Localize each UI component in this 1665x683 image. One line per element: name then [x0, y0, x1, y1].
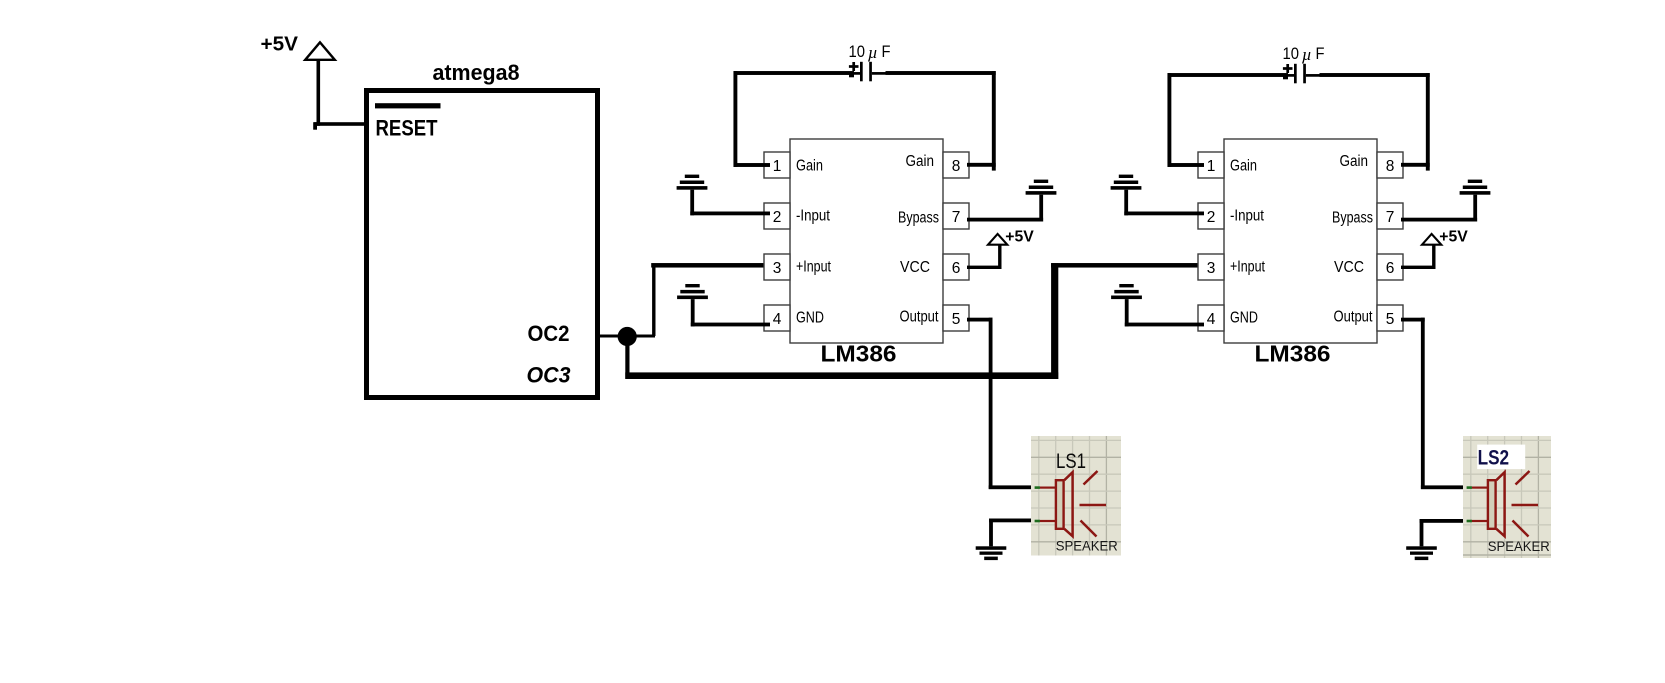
svg-text:F: F: [882, 42, 891, 61]
wire: right drop to pin8: [992, 71, 996, 171]
svg-text:RESET: RESET: [376, 116, 438, 141]
svg-text:Gain: Gain: [796, 158, 823, 175]
svg-text:7: 7: [1386, 209, 1395, 226]
U2 pin 2 box: [764, 203, 790, 229]
svg-text:3: 3: [1207, 260, 1216, 277]
svg-text:LM386: LM386: [1255, 341, 1331, 367]
svg-text:+5V: +5V: [261, 34, 299, 56]
LS2 - terminal lead (red): [1472, 520, 1489, 522]
svg-text:+Input: +Input: [796, 259, 832, 276]
wire: OC2 pin to junction: [600, 335, 624, 338]
wire: Output pin 5 stub: [1401, 318, 1425, 322]
svg-text:+5V: +5V: [1005, 229, 1034, 246]
svg-text:10: 10: [849, 42, 866, 61]
svg-text:µ: µ: [868, 43, 878, 62]
U2 pin 6 box: [943, 254, 969, 280]
wire: GND at U3 GND pin to pin: [1125, 323, 1204, 327]
C2 plus polarity mark: [1283, 64, 1293, 73]
svg-text:5: 5: [952, 311, 961, 328]
wire: GND at U3 Bypass to pin: [1401, 218, 1477, 222]
svg-text:1: 1: [773, 158, 782, 175]
wire: left drop to pin1: [1167, 73, 1171, 167]
svg-text:10: 10: [1283, 44, 1300, 63]
svg-text:2: 2: [773, 209, 782, 226]
svg-text:5: 5: [1386, 311, 1395, 328]
svg-text:OC3: OC3: [527, 363, 571, 388]
wire: C2 left lead: [1168, 73, 1295, 79]
wire: output drop: [1421, 318, 1425, 489]
op-amp U2 LM386 body: [790, 139, 943, 343]
svg-text:LS2: LS2: [1478, 447, 1510, 470]
svg-text:OC2: OC2: [528, 321, 570, 346]
svg-text:3: 3: [773, 260, 782, 277]
svg-text:F: F: [1316, 44, 1325, 63]
svg-text:µ: µ: [1302, 45, 1312, 64]
LS1 - terminal lead (red): [1040, 520, 1057, 522]
svg-text:+Input: +Input: [1230, 259, 1266, 276]
svg-text:8: 8: [1386, 158, 1395, 175]
svg-text:Bypass: Bypass: [898, 210, 939, 227]
wire: junction to U2 +Input (horizontal): [634, 335, 655, 338]
svg-text:Output: Output: [1334, 309, 1374, 326]
svg-text:7: 7: [952, 209, 961, 226]
svg-text:LM386: LM386: [821, 341, 897, 367]
LS1 + terminal stub (green): [1035, 486, 1040, 489]
ground GND at U2 Bypass: [1026, 180, 1057, 222]
C1 left plate: [860, 62, 863, 82]
wire: GND at U2 -Input to pin: [690, 212, 770, 216]
LS2 sound wave lines: [1512, 471, 1539, 537]
U3 pin 7 box: [1377, 203, 1403, 229]
svg-text:Gain: Gain: [1230, 158, 1257, 175]
wire: C1 right lead: [872, 71, 996, 75]
wire: GND at U2 Bypass to pin: [967, 218, 1043, 222]
op-amp U3 LM386 body: [1224, 139, 1377, 343]
svg-text:4: 4: [773, 311, 782, 328]
LS2 cone: [1496, 472, 1504, 536]
speaker LS1 component panel: [1031, 436, 1121, 556]
svg-text:VCC: VCC: [900, 259, 930, 276]
svg-text:6: 6: [1386, 260, 1395, 277]
wire: into pin 8: [1401, 163, 1430, 167]
LS1 + terminal lead (red): [1040, 487, 1057, 489]
svg-text:Gain: Gain: [906, 153, 935, 170]
wire: +5V stem to VCC: [1432, 245, 1435, 269]
U2 pin 4 box: [764, 305, 790, 331]
wire: left drop to pin1: [733, 71, 737, 167]
svg-text:SPEAKER: SPEAKER: [1056, 538, 1118, 553]
junction node (solder dot): [618, 327, 637, 346]
LS2 label background: [1477, 445, 1525, 470]
LS1 - terminal stub (green): [1035, 520, 1040, 523]
ground GND at U3 -Input: [1111, 175, 1142, 216]
svg-text:8: 8: [952, 158, 961, 175]
U3 pin 6 box: [1377, 254, 1403, 280]
wire: GND at U3 -Input to pin: [1124, 212, 1204, 216]
svg-text:atmega8: atmega8: [433, 60, 520, 85]
ground GND at U3 Bypass: [1460, 180, 1491, 222]
LS1 driver rectangle: [1056, 480, 1064, 529]
power symbol +5V at VCC: [1422, 229, 1468, 246]
svg-text:GND: GND: [1230, 310, 1258, 327]
svg-text:4: 4: [1207, 311, 1216, 328]
C1 right plate: [869, 62, 872, 82]
U2 pin 8 box: [943, 152, 969, 178]
svg-text:Output: Output: [900, 309, 940, 326]
svg-text:GND: GND: [796, 310, 824, 327]
wire: into pin 6 VCC: [1401, 266, 1436, 269]
svg-text:Bypass: Bypass: [1332, 210, 1373, 227]
wire: OC3 trunk down from junction: [625, 336, 629, 379]
wire: +5V stem down: [317, 60, 321, 126]
capacitor C2 10uF value label: [1283, 44, 1325, 64]
LS2 + terminal lead (red): [1472, 487, 1489, 489]
U3 pin 5 box: [1377, 305, 1403, 331]
wire: into pin 1: [1168, 163, 1205, 167]
svg-text:1: 1: [1207, 158, 1216, 175]
wire: C2 right lead: [1306, 73, 1430, 77]
power symbol +5V at VCC: [988, 229, 1034, 246]
LS2 panel grid: [1463, 436, 1551, 558]
U2 pin 3 box: [764, 254, 790, 280]
LS1 panel grid: [1031, 436, 1121, 556]
wire: into pin 1: [734, 163, 771, 167]
wire: into speaker + terminal: [1421, 485, 1468, 489]
LS1 sound wave lines: [1080, 471, 1107, 537]
ground below LS1: [976, 519, 1007, 561]
svg-text:-Input: -Input: [1230, 208, 1265, 225]
wire: right drop to pin8: [1426, 73, 1430, 171]
wire: to U3 pin3 +Input: [1051, 263, 1204, 268]
U3 pin 3 box: [1198, 254, 1224, 280]
U2 pin 5 box: [943, 305, 969, 331]
speaker LS2 component panel: [1463, 436, 1551, 558]
svg-text:6: 6: [952, 260, 961, 277]
U3 pin 8 box: [1377, 152, 1403, 178]
wire: +5V to RESET pin: [313, 122, 368, 130]
wire: into speaker + terminal: [989, 485, 1036, 489]
svg-text:LS1: LS1: [1056, 449, 1086, 473]
wire: GND at U2 GND pin to pin: [691, 323, 770, 327]
MCU U1 atmega8 box: [367, 91, 598, 398]
wire: C1 left lead: [734, 71, 861, 77]
ground GND at U3 GND pin: [1111, 284, 1142, 326]
C2 left plate: [1294, 64, 1297, 84]
wire: Output pin 5 stub: [967, 318, 993, 322]
svg-text:Gain: Gain: [1340, 153, 1369, 170]
svg-text:+5V: +5V: [1439, 229, 1468, 246]
svg-text:2: 2: [1207, 209, 1216, 226]
power symbol +5V (top left): [261, 34, 335, 60]
LS1 cone: [1064, 472, 1072, 536]
ground below LS2: [1406, 519, 1437, 560]
svg-text:VCC: VCC: [1334, 259, 1364, 276]
svg-text:-Input: -Input: [796, 208, 831, 225]
wire: to U2 pin3 +Input: [651, 263, 770, 268]
capacitor C1 10uF value label: [849, 42, 891, 62]
U3 pin 4 box: [1198, 305, 1224, 331]
U3 pin 1 box: [1198, 152, 1224, 178]
wire: OC3 trunk horizontal to right amp: [625, 372, 1058, 379]
wire: speaker - terminal to ground below LS2: [1420, 519, 1468, 523]
U3 pin 2 box: [1198, 203, 1224, 229]
wire: into pin 8: [967, 163, 996, 167]
ground GND at U2 GND pin: [677, 284, 708, 326]
C1 plus polarity mark: [849, 62, 859, 71]
ground GND at U2 -Input: [677, 175, 708, 216]
wire: speaker - terminal to ground below LS1: [989, 519, 1035, 523]
LS2 panel bottom edge: [1463, 554, 1551, 556]
U2 pin 1 box: [764, 152, 790, 178]
wire: junction riser to U2 +Input level: [652, 264, 655, 337]
svg-text:SPEAKER: SPEAKER: [1488, 539, 1550, 554]
wire: into pin 6 VCC: [967, 266, 1002, 269]
wire: +5V stem to VCC: [998, 245, 1001, 269]
RESET overline (active-low bar): [375, 103, 441, 108]
wire: OC3 trunk riser to U3 +Input level: [1051, 263, 1058, 379]
U2 pin 7 box: [943, 203, 969, 229]
LS2 driver rectangle: [1488, 480, 1496, 529]
C2 right plate: [1303, 64, 1306, 84]
LS2 - terminal stub (green): [1467, 520, 1472, 523]
LS2 + terminal stub (green): [1467, 486, 1472, 489]
wire: output drop: [989, 318, 993, 489]
